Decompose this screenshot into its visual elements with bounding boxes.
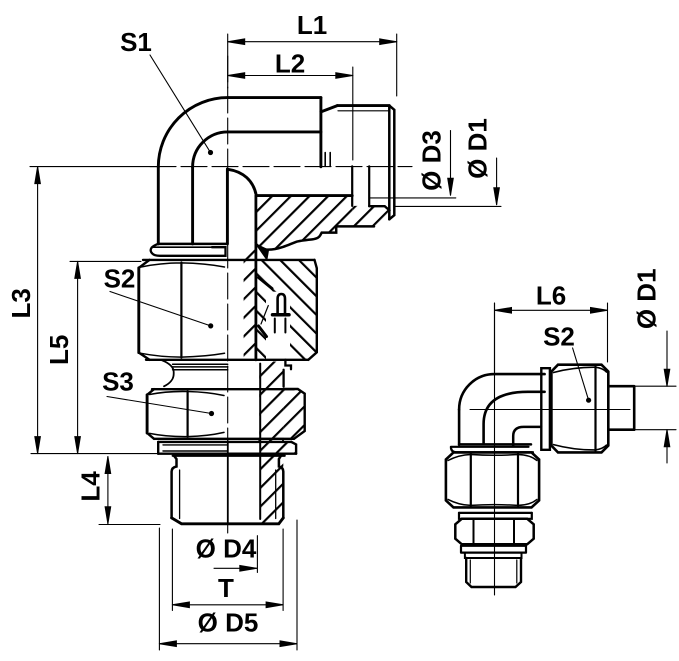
extension line S2 top left (70, 260, 141, 262)
svg-text:Ø D3: Ø D3 (417, 130, 447, 191)
small view D1 arrows (666, 331, 668, 386)
nut S3 section hatch (284, 389, 305, 439)
small view nut S2 outline (551, 365, 608, 453)
body strip section below S2 (259, 362, 283, 439)
elbow leg end vertical (319, 98, 322, 167)
neck section below S3 (259, 439, 283, 442)
washer D5 top line (158, 441, 291, 443)
svg-text:L3: L3 (6, 288, 36, 318)
stud undercut marks (325, 153, 330, 167)
small view washer2 (461, 546, 526, 553)
centerline vertical main view (227, 56, 229, 533)
neck between S2 and S3 (162, 360, 174, 386)
arrow D4 (214, 567, 257, 569)
stud thread root lines (180, 470, 276, 519)
washer D5 rim lines (163, 445, 228, 451)
small view nut face arcs (554, 367, 607, 450)
extension line D3 (369, 197, 456, 199)
small view elbow left edge (458, 410, 461, 445)
nut S2 hex flat line (180, 263, 182, 358)
nut S3 corner chamfers (147, 389, 154, 439)
elbow leg right edge (226, 169, 229, 244)
boss beak (257, 245, 268, 258)
bore fillet arc (228, 169, 256, 195)
elbow leg left edge (157, 167, 160, 244)
elbow bottom lip (151, 244, 226, 256)
arrow D3 (450, 131, 452, 196)
svg-text:S2: S2 (543, 322, 575, 352)
small view tube extension lines (634, 386, 676, 430)
nut S3 section edges (284, 389, 305, 439)
nut S2 face chamfer arcs (141, 263, 225, 357)
washer D5 bottom line (158, 453, 296, 455)
extension line D1 (394, 205, 501, 207)
elbow inner arc (193, 132, 321, 167)
washer D5 right section edge (291, 442, 296, 454)
washer S2-S3 exterior lines (173, 364, 228, 369)
nut S2 bottom face (146, 359, 308, 361)
elbow leg bottom line (158, 243, 228, 246)
washer D5 hatch (260, 442, 297, 454)
stud thread root top (338, 110, 389, 112)
dimension L1 (228, 41, 397, 43)
small view ring3 (465, 553, 522, 558)
small view elbow inner bottom (459, 427, 541, 446)
small view tube stub (608, 386, 634, 430)
dimension D5 (159, 643, 297, 645)
stud bottom (172, 518, 284, 524)
small view hex1 flat lines (471, 454, 518, 506)
washer S2-S3 section edges (284, 360, 291, 387)
small view neck line (459, 512, 532, 514)
cone lip line (369, 206, 389, 210)
stem line (254, 196, 257, 360)
dimension L5 (77, 261, 79, 453)
small view L6 extension lines (494, 303, 496, 372)
washer D5 left edge (157, 442, 159, 454)
boss bottom stepped profile (257, 226, 374, 249)
leader S2 (110, 292, 211, 326)
svg-text:Ø D4: Ø D4 (196, 534, 257, 564)
internal cone column lines (352, 166, 369, 206)
small view elbow outer arc (459, 374, 544, 409)
nut S3 face chamfer arcs (150, 391, 225, 436)
extension line L1 left (227, 34, 229, 88)
svg-text:L2: L2 (275, 49, 305, 79)
elbow outer arc (158, 98, 227, 167)
svg-text:T: T (218, 573, 234, 603)
small view hex2 outline (455, 519, 533, 545)
nut S3 left edge (146, 395, 149, 433)
elbow leg inner-left edge (191, 167, 194, 244)
stud end face lines (389, 106, 394, 220)
stud thread left (172, 456, 177, 518)
extension line D4 (256, 536, 258, 573)
small view stud (466, 558, 521, 587)
leader S3 (107, 397, 212, 414)
nut S3 top face (152, 388, 294, 390)
extension line stud shoulder left (31, 453, 173, 455)
dimension L4 (107, 457, 109, 524)
small view S2 leader (573, 348, 589, 400)
small view stud root lines (470, 560, 517, 583)
extension line L1 right (396, 34, 398, 96)
dimension L2 (228, 75, 353, 77)
small view centerline vertical (494, 303, 496, 595)
svg-text:Ø D5: Ø D5 (198, 608, 259, 638)
small view hex1 face arcs (448, 455, 537, 506)
svg-text:L6: L6 (536, 281, 566, 311)
svg-text:Ø D1: Ø D1 (632, 268, 662, 329)
small view nut hex flat line (594, 367, 596, 451)
stud shoulder line (173, 455, 285, 457)
leader S1 (150, 55, 211, 153)
extension line L2 right (352, 67, 354, 160)
svg-text:L4: L4 (76, 471, 106, 502)
stud axis solid line (227, 441, 229, 524)
bore wall line horizontal (256, 194, 352, 197)
nut S2 hatch section (256, 260, 317, 360)
extension lines T (172, 529, 283, 611)
small view elbow inner contour (484, 392, 545, 444)
small view centerline horizontal (470, 409, 630, 411)
dimension L3 (37, 167, 39, 454)
stud bore line (259, 364, 261, 519)
centerline horizontal main view (150, 166, 412, 168)
small view elbow bottom flange (451, 447, 533, 452)
stud thread crest top (337, 104, 389, 107)
small view washer1 (459, 513, 532, 519)
dimension T (172, 604, 283, 606)
extension lines D5 (159, 520, 297, 650)
small view hex2 flat lines (474, 520, 515, 543)
svg-text:L1: L1 (297, 10, 327, 40)
arrow D1 (496, 158, 498, 205)
stud hatch (260, 456, 284, 524)
svg-text:S1: S1 (120, 27, 152, 57)
nut S2 corner chamfers (139, 260, 150, 360)
stud thread right (279, 456, 283, 518)
nut S2 top face (143, 259, 315, 261)
small view nut skirt ring (541, 368, 550, 450)
nut S2 left edge (137, 268, 140, 353)
stud chamfer top (321, 106, 337, 112)
dimension L6 (495, 309, 608, 311)
svg-text:S2: S2 (104, 264, 136, 294)
small view hex1 outline (446, 452, 539, 507)
nut S2 right section edge (308, 260, 317, 360)
extension line stud bottom left (99, 524, 160, 526)
nut S3 hex flat line (187, 391, 189, 437)
nut S3 bottom face (154, 438, 294, 440)
svg-text:Ø D1: Ø D1 (463, 118, 493, 179)
cutting ring detail (259, 278, 273, 289)
extension line centerline left (30, 166, 158, 168)
svg-text:L5: L5 (44, 335, 74, 365)
elbow top line (228, 96, 321, 99)
svg-text:S3: S3 (102, 367, 134, 397)
boss hatch region (244, 197, 390, 360)
